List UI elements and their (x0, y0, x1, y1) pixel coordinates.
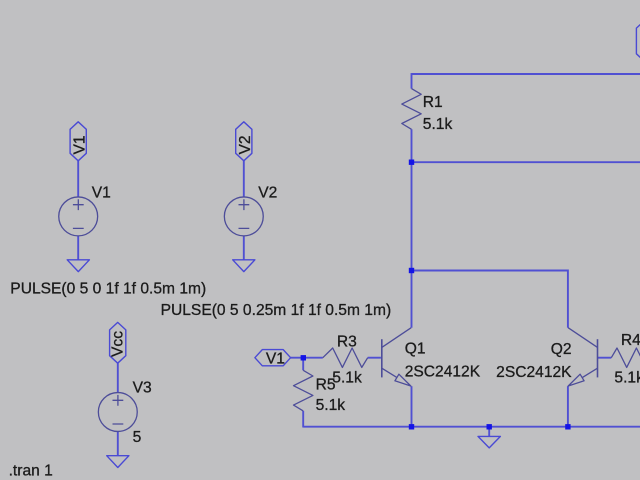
svg-text:Q2: Q2 (551, 341, 572, 358)
svg-text:R1: R1 (423, 94, 443, 111)
svg-text:PULSE(0 5 0 1f 1f 0.5m 1m): PULSE(0 5 0 1f 1f 0.5m 1m) (10, 280, 206, 297)
svg-text:5.1k: 5.1k (614, 369, 640, 386)
svg-text:5.1k: 5.1k (332, 369, 362, 386)
svg-text:V1: V1 (92, 185, 111, 202)
svg-text:Vcc: Vcc (109, 331, 126, 357)
svg-text:V1: V1 (71, 135, 88, 154)
svg-text:V3: V3 (133, 379, 152, 396)
svg-text:Q1: Q1 (405, 340, 426, 357)
svg-text:R5: R5 (316, 376, 336, 393)
svg-text:V2: V2 (237, 135, 254, 154)
svg-text:2SC2412K: 2SC2412K (496, 364, 572, 381)
svg-text:.tran 1: .tran 1 (9, 462, 53, 479)
svg-text:PULSE(0 5 0.25m 1f 1f 0.5m 1m): PULSE(0 5 0.25m 1f 1f 0.5m 1m) (161, 302, 392, 319)
svg-text:5.1k: 5.1k (423, 116, 453, 133)
svg-text:R4: R4 (621, 332, 640, 349)
svg-text:5.1k: 5.1k (316, 397, 346, 414)
svg-text:2SC2412K: 2SC2412K (405, 364, 481, 381)
svg-text:V2: V2 (258, 185, 277, 202)
svg-text:R3: R3 (337, 333, 357, 350)
svg-text:5: 5 (133, 429, 142, 446)
svg-text:V1: V1 (266, 350, 285, 367)
